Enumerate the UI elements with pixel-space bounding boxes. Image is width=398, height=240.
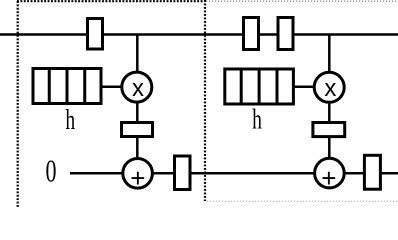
- svg-text:+: +: [130, 163, 145, 193]
- adder stage 2: [315, 158, 345, 188]
- register (input delay) stage 2 second: [278, 18, 293, 50]
- cell 2 dotted border top: [206, 0, 398, 2]
- register (input delay) stage 2 first: [244, 18, 259, 50]
- accumulator register stage 2: [364, 155, 380, 189]
- adder stage 1: [123, 159, 153, 189]
- coefficient shift register h stage 2: [225, 68, 294, 106]
- pipeline register (product) stage 1: [122, 123, 153, 137]
- cell divider dotted line: [204, 0, 206, 201]
- svg-text:+: +: [321, 163, 336, 193]
- svg-text:0: 0: [46, 153, 57, 189]
- wire: stage 1 vertical tap to multiplier/adder: [136, 35, 139, 174]
- pipeline register (product) stage 2: [313, 123, 345, 137]
- multiplier stage 2: [314, 72, 344, 102]
- wire: stage 1 coefficient box to multiplier: [100, 86, 137, 89]
- register (input delay) stage 1: [88, 19, 103, 50]
- svg-text:h: h: [65, 104, 75, 136]
- svg-text:x: x: [324, 75, 336, 102]
- svg-text:h: h: [252, 104, 262, 136]
- wire: stage 2 vertical tap to multiplier/adder: [328, 35, 331, 174]
- wire: input bus x(n) top horizontal: [0, 33, 398, 36]
- svg-text:x: x: [132, 75, 144, 102]
- wire: stage 2 coefficient box to multiplier: [292, 86, 329, 89]
- cell 2 dotted border bottom: [207, 200, 398, 202]
- multiplier stage 1: [122, 72, 152, 102]
- cell 1 dotted border top: [17, 0, 204, 2]
- wire: accumulator bus bottom horizontal: [70, 172, 398, 175]
- accumulator register stage 1: [175, 156, 191, 190]
- coefficient shift register h stage 1: [33, 67, 101, 105]
- cell 1 dotted border left: [17, 1, 19, 207]
